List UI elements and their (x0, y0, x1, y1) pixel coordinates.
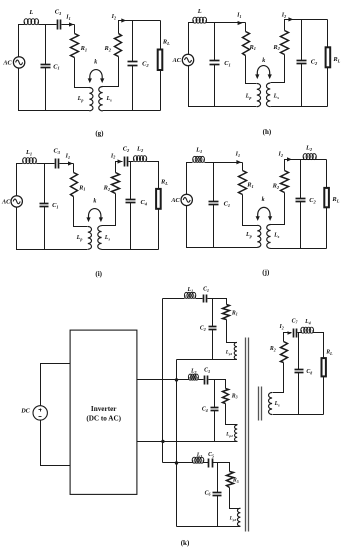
shunt branch C2 (h) lower (301, 64, 303, 107)
load resistor RL (g) (158, 50, 163, 71)
load resistor RL (h) (326, 47, 331, 67)
primary winding Lp (h) (257, 84, 261, 107)
capacitor C5 (k) (208, 459, 210, 468)
secondary winding Ls (g) (99, 86, 103, 110)
svg-text:k: k (262, 197, 265, 203)
shunt branch C4 (i) lower (130, 203, 132, 250)
shunt branch C2 (g) lower wire (132, 66, 134, 111)
wire L4 to RL corner (k) (314, 333, 324, 359)
resistor R2 (h) (281, 31, 289, 55)
resistor R2 (i) (112, 173, 120, 194)
wire (h) down to R1 (245, 23, 247, 32)
resistor R1 (k) (223, 305, 230, 320)
shunt branch C1 (i) upper (44, 164, 46, 204)
wire (j) L1 to R1 corner (205, 162, 243, 164)
wire (h) AC to top-left (189, 23, 194, 55)
bottom wire (g) primary (19, 69, 90, 111)
load resistor RL (j) (324, 188, 329, 207)
wire (g) Ls to R2 (103, 57, 119, 87)
svg-text:I1: I1 (236, 13, 241, 19)
svg-text:Lp: Lp (245, 232, 252, 238)
inductor L2 (i) (133, 159, 135, 162)
svg-text:AC: AC (170, 197, 180, 204)
svg-text:(g): (g) (95, 129, 104, 137)
inverter output wire B / tank2 bottom wire (k) (137, 441, 238, 443)
transformer core line 1 (k) (245, 338, 247, 532)
svg-text:(j): (j) (262, 268, 270, 276)
shunt branch C2 upper (k) (212, 299, 214, 327)
inductor L (g) (23, 22, 25, 25)
shunt branch C1 (g) lower wire (45, 68, 47, 111)
svg-text:DC: DC (20, 408, 30, 415)
inductor L2 (j) (302, 157, 304, 160)
shunt branch C2 (j) upper (300, 160, 302, 199)
svg-text:I1: I1 (65, 15, 70, 21)
wire (i) down to R1 (73, 164, 75, 173)
transformer core line 2 (k) (248, 338, 250, 532)
current arrow I2 (k) (288, 331, 292, 335)
current arrow I1 (i) (68, 161, 73, 165)
resistor R2 (k) (281, 342, 288, 363)
inductor L (h) (192, 20, 194, 23)
wire Ls to R2 (k) (273, 363, 284, 393)
primary winding Lp (j) (257, 225, 261, 247)
capacitor C1 (k) (203, 295, 205, 303)
shunt branch C1 (i) lower (44, 207, 46, 250)
capacitor C6 (k) (213, 492, 222, 494)
wire (g) top to RL (160, 21, 162, 50)
coupling k (g) (90, 70, 102, 80)
AC source (j) (181, 194, 192, 205)
svg-text:L: L (28, 9, 33, 16)
inductor L4 (k) (300, 330, 302, 333)
tank3 wire C5 to R5 corner (k) (213, 463, 230, 472)
bus 1 elbow to tank3 (k) (163, 462, 177, 464)
secondary winding Ls (i) (98, 226, 102, 250)
wire (h) top to RL (327, 20, 329, 48)
resistor R1 (j) (239, 171, 247, 195)
secondary coil Ls (k) (269, 393, 273, 415)
svg-text:k: k (94, 60, 97, 66)
wire (j) RL to bottom (326, 208, 328, 249)
svg-text:L: L (197, 8, 202, 15)
svg-text:AC: AC (1, 199, 11, 206)
capacitor C2 series (i) (124, 157, 126, 167)
wire (g) down to R1 (74, 25, 76, 34)
wire (j) Ls to R2 (271, 193, 285, 225)
svg-text:Ls: Ls (273, 94, 280, 100)
bus 1 vertical (k) (162, 299, 164, 463)
tank1 bottom wire (k) (177, 359, 237, 361)
capacitor C4 (k) (211, 407, 219, 409)
primary winding Lp (i) (88, 227, 92, 250)
junction node bus2/wireA (k) (175, 378, 178, 381)
inductor L1 (k) (184, 295, 186, 298)
svg-text:I2: I2 (110, 153, 115, 159)
svg-text:I2: I2 (281, 13, 286, 19)
shunt branch C4 (i) upper (130, 162, 132, 200)
svg-text:Ls: Ls (104, 235, 111, 241)
current arrow I1 (h) (238, 21, 243, 25)
wire (g) RL to bottom (160, 71, 162, 111)
bottom wire (h) primary (189, 66, 257, 107)
primary coil Lp1 (k) (234, 342, 237, 359)
resistor R3 (k) (223, 389, 229, 404)
shunt branch C6 lower (k) (217, 496, 219, 527)
tank2 wire L2 to C3 (k) (199, 379, 204, 381)
svg-text:k: k (93, 199, 96, 205)
wire (j) AC to top-left (187, 163, 193, 195)
coupling k (j) (258, 207, 270, 217)
capacitor C2 (j) (296, 198, 306, 200)
capacitor C1 (i) (40, 203, 49, 205)
bottom wire (i) primary (17, 208, 88, 250)
primary coil Lp2 (k) (235, 425, 238, 441)
capacitor C2 (h) (297, 60, 307, 62)
shunt branch C4 lower (k) (214, 411, 216, 442)
shunt branch C1 (g) upper wire (45, 25, 47, 65)
wire (g) C3 to R1 corner, current arrow I1 (62, 24, 75, 26)
svg-text:I1: I1 (65, 154, 70, 160)
wire (i) C3 to R1 corner (60, 163, 74, 165)
load resistor RL (i) (156, 189, 161, 209)
resistor R2 (j) (281, 171, 289, 193)
shunt branch C6 upper (k) (217, 463, 219, 493)
svg-text:(h): (h) (263, 128, 272, 136)
capacitor C4 (i) (126, 199, 136, 201)
tank1 wire L1 to C1 (k) (196, 298, 203, 300)
capacitor C1 (h) (210, 60, 220, 62)
secondary core line 1 (k) (258, 387, 260, 421)
wire (j) top to RL (326, 160, 328, 188)
wire (j) down to R1 (242, 163, 244, 171)
tank1 wire C1 to R1 corner (k) (208, 299, 227, 305)
tank1 top wire left (k) (163, 298, 185, 300)
wire (h) Ls to R2 (271, 55, 285, 83)
wire (i) RL to bottom (158, 209, 160, 250)
wire (j) R1 to Lp (243, 195, 258, 226)
primary winding Lp (g) (89, 88, 93, 111)
shunt branch C2 (g) upper wire (132, 21, 134, 62)
wire (h) L to R1 corner, arrow I1 (207, 22, 246, 24)
svg-text:Lp: Lp (77, 96, 84, 102)
load resistor RL (k) (322, 358, 326, 376)
wire (i) R2 up to top wire (116, 162, 123, 173)
svg-text:k: k (262, 58, 265, 64)
svg-text:I1: I1 (235, 152, 240, 158)
inductor L2 (k) (188, 377, 190, 380)
wire (g) L to C3 (39, 24, 57, 26)
wire (i) Ls to R2 (102, 194, 116, 226)
wire (k) DC bottom to inverter (41, 421, 71, 466)
resistor R1 (h) (243, 32, 250, 56)
bus 2 vertical (k) (176, 360, 178, 527)
svg-text:Ls: Ls (273, 233, 280, 239)
wire R2 up, top wire (k) (284, 333, 292, 342)
shunt branch C8 lower (k) (298, 373, 300, 415)
svg-text:(DC to AC): (DC to AC) (86, 414, 121, 422)
svg-text:Lp: Lp (76, 235, 83, 241)
inverter output wire A (k) (137, 379, 189, 381)
capacitor C1 (j) (209, 201, 219, 203)
current arrow I1 (g) (69, 22, 74, 26)
primary coil Lp3 (k) (237, 508, 240, 526)
svg-text:AC: AC (2, 60, 12, 67)
tank3 wire L3 to C5 (k) (204, 462, 209, 464)
secondary winding Ls (h) (266, 83, 270, 107)
svg-text:I2: I2 (111, 14, 116, 20)
capacitor C2 (k) (209, 326, 217, 328)
wire (g) AC top to top-left corner (19, 25, 25, 57)
capacitor C3 (g) (57, 20, 59, 30)
svg-text:Lp: Lp (245, 94, 252, 100)
inductor L1 (i) (22, 161, 24, 164)
DC source (k) (33, 406, 47, 420)
wire (j) R2 up, top wire (285, 160, 327, 171)
wire (h) R1 to Lp (246, 56, 257, 84)
wire RL to bottom (k) (323, 377, 325, 415)
secondary winding Ls (j) (267, 225, 271, 249)
tank2 wire C3 to R3 corner (k) (209, 380, 226, 389)
bottom wire (h) secondary (271, 106, 328, 108)
shunt branch C1 (h) lower (214, 65, 216, 107)
wire (i) L1 to C3 (37, 163, 55, 165)
resistor R1 (i) (71, 173, 78, 197)
tank1 R1 to Lp1 (k) (227, 320, 237, 343)
secondary core line 2 (k) (261, 387, 263, 421)
bottom wire (i) secondary (102, 249, 159, 251)
shunt branch C1 (j) lower (213, 205, 215, 248)
wire (h) R2 up, top wire to RL (285, 20, 328, 31)
shunt branch C2 (j) lower (300, 202, 302, 249)
wire (i) L2 to RL corner (147, 162, 159, 189)
shunt branch C1 (j) upper (213, 163, 215, 202)
resistor R5 (k) (227, 472, 234, 488)
wire (g) R1 to Lp (75, 58, 90, 88)
bottom wire (j) secondary (271, 248, 327, 250)
capacitor C3 (k) (204, 376, 206, 385)
current arrow I2 (j) (287, 157, 292, 161)
coupling k (h) (257, 66, 269, 76)
svg-text:I2: I2 (278, 152, 283, 158)
tank3 R5 to Lp3 (k) (230, 488, 241, 509)
svg-text:AC: AC (172, 57, 182, 64)
resistor R1 (g) (71, 34, 79, 58)
wire C7 to node (k) (298, 332, 302, 334)
bottom wire (g) secondary (103, 110, 161, 112)
current arrow I1 (j) (236, 160, 241, 164)
current arrow I2 (i) (118, 159, 123, 163)
capacitor C7 (k) (293, 329, 295, 338)
wire (i) R1 to Lp (74, 197, 88, 227)
tank3 bottom wire (k) (177, 526, 241, 528)
bottom wire secondary (k) (273, 414, 324, 416)
wire (g) R2 up, I2 arrow, top wire to RL (119, 21, 161, 34)
junction node bus1/wireB (k) (161, 440, 164, 443)
wire (i) AC to top-left (17, 164, 23, 196)
AC source (g) (13, 57, 24, 68)
resistor R2 (g) (115, 34, 122, 57)
inductor L3 (k) (192, 460, 194, 463)
current arrow I2 (g) (121, 18, 126, 22)
capacitor C8 (k) (295, 369, 304, 371)
svg-text:Ls: Ls (105, 96, 112, 102)
capacitor C1 (g) (41, 64, 51, 66)
coupling k (i) (89, 209, 101, 219)
inverter box U1 (70, 330, 137, 494)
bottom wire (j) primary (187, 206, 258, 248)
shunt branch C1 (h) upper (214, 23, 216, 61)
svg-text:Inverter: Inverter (91, 405, 117, 413)
svg-text:(k): (k) (181, 539, 190, 547)
wire (k) DC top to inverter (41, 364, 71, 406)
shunt branch C2 lower (k) (212, 330, 214, 360)
inductor L1 (j) (192, 159, 194, 162)
capacitor C3 (i) (55, 159, 57, 169)
wire (h) RL to bottom (327, 68, 329, 107)
AC source (i) (11, 196, 22, 207)
shunt branch C4 upper (k) (214, 380, 216, 408)
capacitor C2 (g) (128, 61, 138, 63)
shunt branch C2 (h) upper (301, 20, 303, 61)
tank2 R3 to Lp2 (k) (226, 404, 238, 425)
junction node bus2/tank3 (k) (175, 461, 178, 464)
svg-text:(i): (i) (95, 270, 102, 278)
wire (i) C2 to node (129, 161, 134, 163)
AC source (h) (182, 54, 193, 65)
shunt branch C8 upper (k) (298, 333, 300, 370)
tank3 top wire left (k) (177, 462, 193, 464)
current arrow I2 (h) (288, 17, 293, 21)
